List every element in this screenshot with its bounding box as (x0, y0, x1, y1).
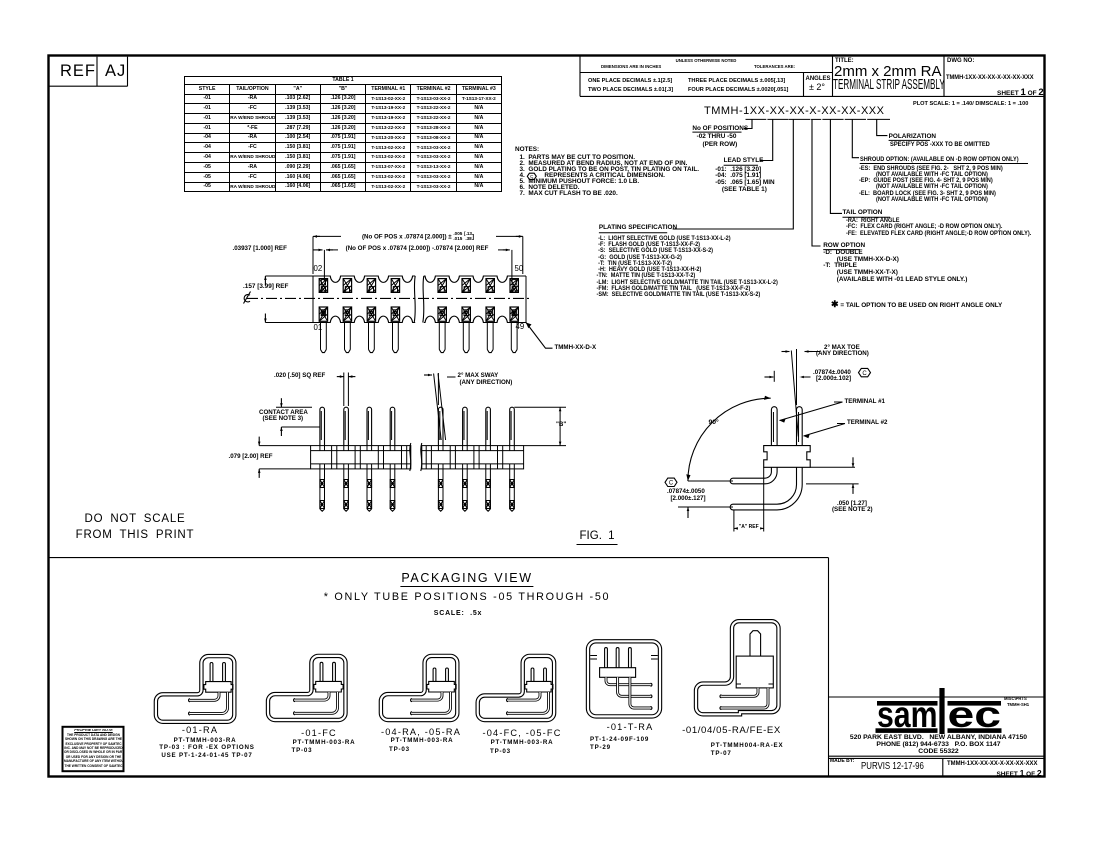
svg-text:sam: sam (877, 694, 938, 735)
svg-text:ec: ec (948, 694, 1002, 735)
svg-text:C: C (862, 371, 867, 377)
svg-text:C: C (669, 481, 674, 487)
